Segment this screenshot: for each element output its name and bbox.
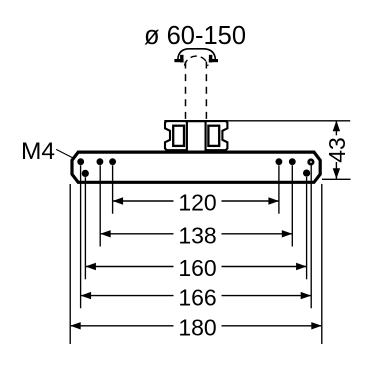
extension line 120 left	[112, 165, 114, 213]
clamp dome outer arc	[178, 49, 216, 60]
extension line 160 right	[306, 177, 308, 279]
hole left lower	[82, 170, 89, 177]
extension line 166 left	[80, 165, 82, 308]
svg-text:ø 60-150: ø 60-150	[144, 22, 246, 50]
leader M4	[56, 149, 74, 158]
dimension 138	[100, 223, 292, 249]
center dashed line right	[205, 62, 207, 120]
extension line 138 right	[291, 165, 293, 246]
svg-text:43: 43	[324, 137, 350, 163]
extension line 138 left	[99, 165, 101, 246]
mounting bar	[72, 152, 320, 182]
dimension 180	[70, 315, 322, 341]
hole M4 right 2	[289, 158, 296, 165]
channel profile right half	[206, 121, 228, 150]
ring hole right	[309, 160, 314, 165]
channel profile left half	[165, 121, 187, 150]
svg-text:180: 180	[178, 315, 216, 341]
dimension 160	[85, 255, 306, 281]
hole M4 left 2	[97, 158, 104, 165]
channel slot edge right	[205, 120, 207, 152]
svg-text:120: 120	[178, 190, 216, 216]
extension line 180 right	[321, 184, 323, 344]
extension line 180 left	[69, 184, 71, 344]
clamp foot right	[209, 55, 218, 63]
extension line 160 left	[84, 177, 86, 279]
channel profile top edge	[164, 120, 228, 122]
clamp foot left	[174, 55, 183, 63]
dimension 166	[81, 284, 312, 310]
hole M4 left 1	[77, 158, 84, 165]
center dashed line left	[185, 62, 187, 120]
svg-text:160: 160	[178, 255, 216, 281]
hole M4 left 3	[109, 158, 116, 165]
extension line 166 right	[310, 165, 312, 308]
dimension 120	[113, 190, 279, 216]
dimension 43	[228, 121, 351, 180]
svg-text:166: 166	[178, 284, 216, 310]
channel slot edge left	[186, 120, 188, 152]
clamp hidden inner arc (dashed)	[185, 56, 208, 66]
hole M4 right 1	[276, 158, 283, 165]
hole right lower	[303, 170, 310, 177]
extension line 120 right	[278, 165, 280, 213]
svg-text:138: 138	[178, 223, 216, 249]
svg-text:M4: M4	[21, 138, 55, 165]
